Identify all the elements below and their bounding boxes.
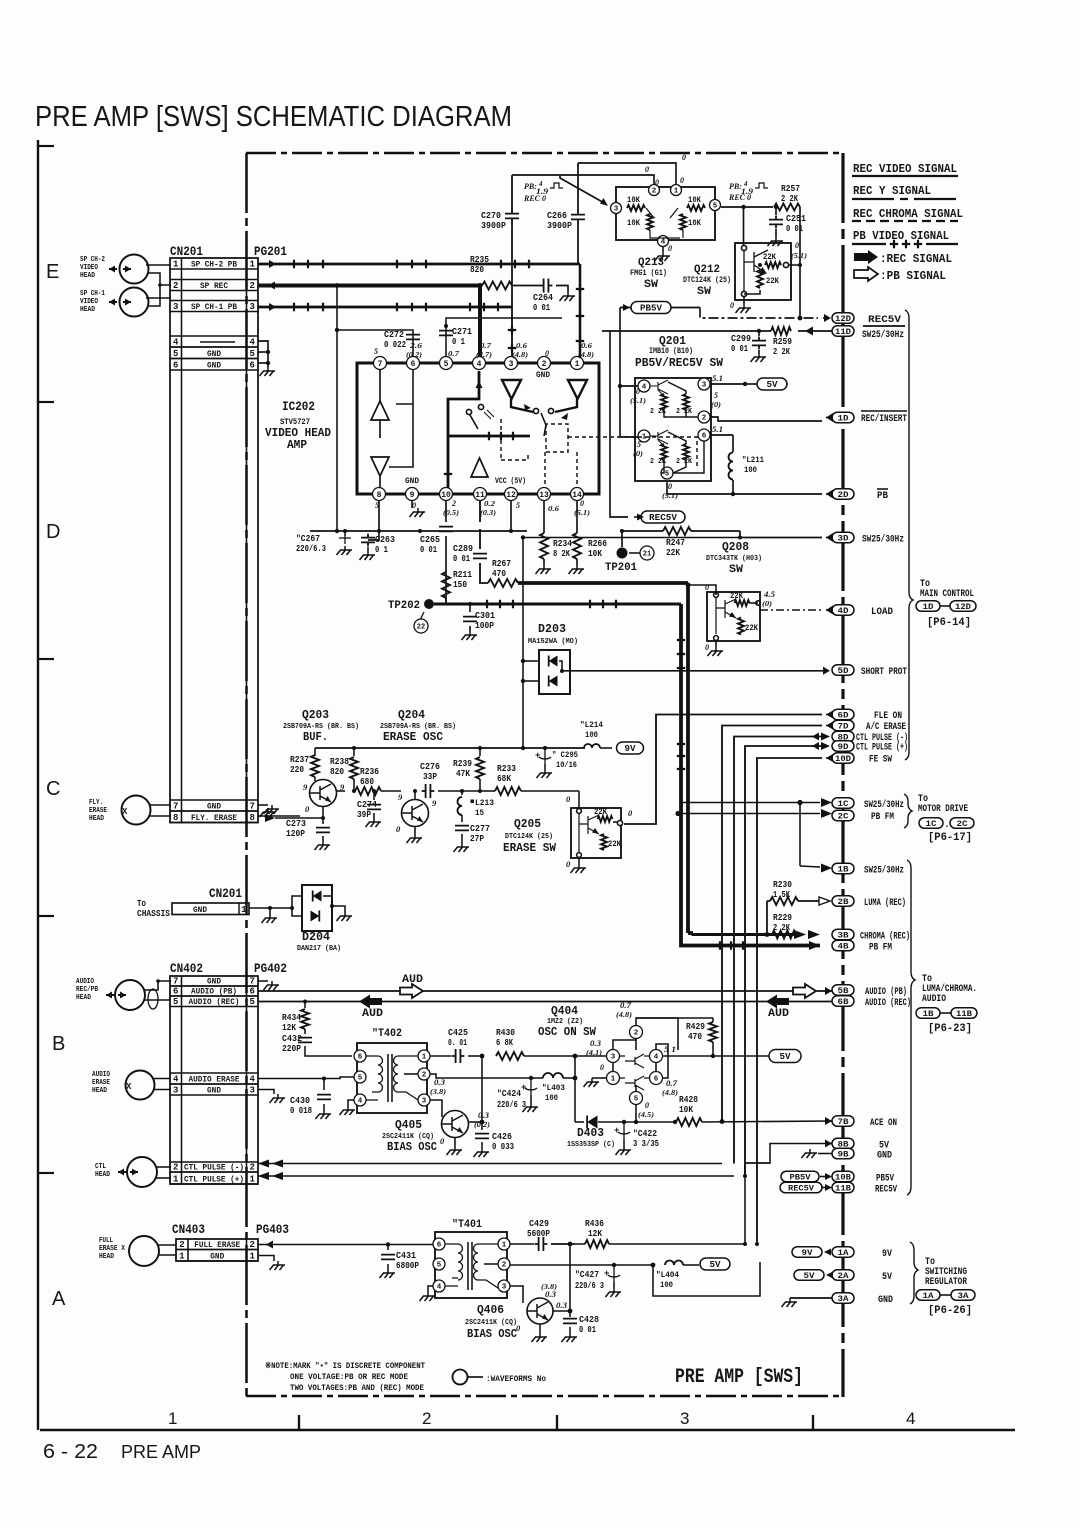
svg-text:(4.8): (4.8) — [662, 1089, 678, 1097]
svg-text:2: 2 — [422, 1409, 431, 1428]
svg-text:"C422: "C422 — [633, 1129, 657, 1139]
svg-text:1A: 1A — [923, 1291, 935, 1301]
wire Q208 collector to 4D LOAD — [749, 602, 758, 604]
Q404 pin 6 — [650, 1072, 663, 1085]
capacitor C270 — [511, 175, 513, 209]
oval 1B ref — [916, 1008, 940, 1019]
svg-text:10/16: 10/16 — [556, 760, 577, 770]
IC202 pin 1 — [571, 357, 584, 370]
svg-text:Q405: Q405 — [395, 1118, 422, 1132]
svg-text:10K: 10K — [688, 219, 701, 228]
svg-text:IMB10 (B10): IMB10 (B10) — [649, 347, 693, 356]
svg-text:1: 1 — [502, 1242, 507, 1250]
svg-text:REC5V: REC5V — [649, 513, 678, 523]
svg-text:R247: R247 — [666, 538, 685, 548]
svg-text:GND: GND — [536, 371, 550, 380]
svg-text:(0.3): (0.3) — [480, 509, 496, 517]
transformer T401 box — [435, 1232, 507, 1298]
pin oval 10D — [832, 753, 854, 764]
svg-text:TP202: TP202 — [388, 600, 420, 612]
T401 pin4 gnd — [428, 1286, 433, 1292]
svg-text:AMP: AMP — [287, 438, 307, 452]
transistor Q406 — [527, 1298, 553, 1324]
pin oval 5B — [832, 985, 854, 996]
svg-text:1D: 1D — [923, 602, 934, 612]
row 4 dash — [200, 341, 235, 343]
wire CTL PULSE(+) row — [258, 1175, 734, 1177]
svg-text:0: 0 — [636, 387, 640, 396]
svg-text:MA152WA (MO): MA152WA (MO) — [528, 638, 578, 646]
svg-text:12: 12 — [506, 491, 516, 500]
Q201 pin 2 — [698, 411, 710, 423]
wire Q204 collector up — [414, 791, 416, 800]
svg-text:ERASE: ERASE — [92, 1079, 110, 1087]
schematic border left — [245, 153, 248, 1397]
AUD open arrow right (audio pb) — [258, 990, 832, 992]
svg-text:(4.7): (4.7) — [476, 351, 492, 359]
svg-text:FULL ERASE: FULL ERASE — [194, 1240, 240, 1250]
svg-text:R239: R239 — [453, 759, 472, 769]
svg-text:3A: 3A — [958, 1291, 970, 1301]
svg-text:CTL PULSE (+): CTL PULSE (+) — [184, 1175, 244, 1185]
svg-text:[P6-14]: [P6-14] — [927, 617, 971, 629]
brace D group — [905, 310, 913, 760]
svg-text:0: 0 — [545, 349, 549, 358]
svg-text:6 - 22: 6 - 22 — [43, 1441, 98, 1463]
svg-text:11B: 11B — [956, 1009, 972, 1019]
svg-text:10K: 10K — [679, 1105, 694, 1115]
svg-text:PB VIDEO SIGNAL: PB VIDEO SIGNAL — [853, 229, 949, 243]
svg-text:4: 4 — [906, 1409, 915, 1428]
svg-text:0.7: 0.7 — [448, 349, 459, 358]
svg-text:3900P: 3900P — [481, 221, 507, 231]
svg-text:GND: GND — [210, 1252, 224, 1262]
svg-text:7: 7 — [250, 977, 255, 987]
svg-text:DTC124K (25): DTC124K (25) — [683, 276, 731, 285]
svg-text:"L214: "L214 — [580, 720, 603, 730]
svg-text:HEAD: HEAD — [76, 994, 91, 1002]
svg-text:0 018: 0 018 — [290, 1106, 312, 1116]
svg-text:2C: 2C — [838, 811, 849, 821]
svg-text:(3.8): (3.8) — [430, 1088, 446, 1096]
svg-text:VIDEO: VIDEO — [80, 298, 98, 306]
transistor Q204 — [402, 800, 429, 827]
svg-text:0.6: 0.6 — [516, 341, 527, 350]
svg-text:AUDIO (REC): AUDIO (REC) — [189, 997, 240, 1007]
Q201 pin 1 — [638, 430, 650, 442]
wire bias osc vertical x570 — [569, 1244, 571, 1311]
arrow into 3B — [794, 930, 820, 939]
svg-text:MAIN CONTROL: MAIN CONTROL — [920, 589, 974, 600]
svg-text:0.6: 0.6 — [581, 341, 592, 350]
svg-text:C270: C270 — [481, 211, 501, 221]
TP202 bus with + marks — [434, 603, 629, 606]
SP CH-2 video head — [120, 255, 149, 284]
svg-text:CTL: CTL — [95, 1163, 106, 1171]
svg-text:AUDIO (PB): AUDIO (PB) — [865, 986, 907, 998]
pin oval 11D — [832, 326, 854, 337]
Q201 pin 6 — [698, 429, 710, 441]
pin oval 2A — [832, 1270, 854, 1281]
bottom ruler line — [40, 1429, 1015, 1431]
svg-text:GND: GND — [878, 1295, 893, 1306]
diode D204 box — [302, 885, 332, 931]
svg-text:2: 2 — [173, 1163, 178, 1173]
svg-text:R428: R428 — [679, 1095, 698, 1105]
wire SP REC branch x337 — [336, 286, 338, 532]
IC202 amp triangle 2 — [371, 457, 389, 476]
svg-text:5: 5 — [637, 440, 641, 449]
svg-text:R430: R430 — [496, 1028, 515, 1038]
svg-text:C299: C299 — [731, 334, 751, 344]
svg-text:4.5: 4.5 — [763, 590, 775, 599]
svg-text:CTL PULSE (+): CTL PULSE (+) — [856, 742, 908, 754]
svg-text:LOAD: LOAD — [871, 607, 893, 618]
svg-text:0: 0 — [600, 1063, 604, 1072]
D204 wiring — [292, 896, 302, 916]
left border tick 3 — [38, 658, 54, 660]
wire FLY ERASE to Q203 — [258, 815, 300, 817]
svg-text:4: 4 — [437, 1284, 442, 1292]
svg-text:+: + — [614, 1126, 619, 1136]
capacitor C263 — [344, 531, 346, 536]
svg-text:4: 4 — [173, 338, 179, 348]
D204 diode 1 — [313, 891, 322, 902]
svg-text:R235: R235 — [470, 255, 489, 265]
svg-text:VIDEO: VIDEO — [80, 264, 98, 272]
Q212 internals — [744, 250, 768, 291]
svg-text:.: . — [944, 820, 950, 831]
svg-text:3: 3 — [680, 1409, 689, 1428]
svg-text:REC 0: REC 0 — [523, 194, 546, 203]
svg-text:C426: C426 — [492, 1132, 512, 1142]
svg-text:0.3: 0.3 — [545, 1290, 556, 1299]
wire to 12D — [671, 307, 700, 309]
IC202 pin 6 — [407, 357, 420, 370]
svg-text:2A: 2A — [838, 1271, 850, 1281]
wire T402 pin4 gnd — [348, 1100, 354, 1106]
svg-text:5V: 5V — [804, 1271, 816, 1281]
svg-text:12D: 12D — [835, 314, 851, 324]
svg-text:0: 0 — [795, 241, 799, 250]
T401 pin 2 — [498, 1258, 510, 1270]
svg-text:3: 3 — [611, 1054, 616, 1062]
svg-text:3: 3 — [502, 1284, 507, 1292]
svg-text:5V: 5V — [710, 1260, 722, 1270]
svg-text:0: 0 — [668, 244, 672, 253]
svg-text:4: 4 — [661, 239, 666, 247]
svg-text:SW: SW — [729, 564, 743, 576]
svg-text:3900P: 3900P — [547, 221, 573, 231]
svg-text:27P: 27P — [470, 834, 485, 844]
svg-text:7: 7 — [250, 802, 255, 812]
svg-text:AUDIO ERASE: AUDIO ERASE — [189, 1075, 240, 1085]
wire vertical to IC pin 1 with + marks — [579, 264, 582, 363]
svg-text:GND: GND — [877, 1151, 892, 1162]
svg-text:1: 1 — [674, 188, 679, 196]
IC202 pin 8 — [373, 488, 386, 501]
wire R230 down to 3B line — [766, 901, 768, 935]
wire 2D PB — [667, 481, 822, 494]
T402 core — [387, 1054, 389, 1102]
bus + marks vertical — [677, 636, 685, 644]
svg-text:CN201: CN201 — [209, 887, 242, 901]
Q212 pin wires — [743, 207, 745, 245]
svg-text:5: 5 — [437, 1262, 442, 1270]
IC202 amp triangle 3 — [471, 458, 488, 477]
svg-text:ERASE OSC: ERASE OSC — [383, 730, 443, 744]
svg-text:REC5V: REC5V — [868, 315, 901, 326]
IC202 amp triangle down-left — [502, 380, 521, 399]
svg-text:SP REC: SP REC — [200, 281, 228, 291]
svg-text:6: 6 — [411, 360, 416, 369]
svg-text:PG201: PG201 — [254, 245, 287, 259]
T402 pin 5 — [354, 1071, 366, 1083]
wire R436 right and up bundle join — [609, 1243, 745, 1245]
svg-text:100: 100 — [660, 1280, 673, 1290]
svg-text:6: 6 — [173, 361, 178, 371]
svg-text:B: B — [52, 1033, 65, 1055]
Q208 gnd — [715, 641, 717, 647]
svg-text:SW: SW — [644, 279, 658, 291]
wire bundle vertical 3 — [734, 737, 822, 1164]
left border tick 2 — [38, 401, 54, 403]
gnd wire to 3A — [790, 1297, 832, 1299]
svg-text:0: 0 — [580, 499, 584, 508]
svg-text:3: 3 — [509, 360, 514, 369]
svg-text:+: + — [521, 1083, 526, 1093]
svg-text:"T402: "T402 — [372, 1028, 402, 1040]
Q213 pin 4 — [658, 236, 669, 247]
svg-text:VCC (5V): VCC (5V) — [495, 477, 526, 486]
head switch contact set 1 — [466, 409, 471, 414]
svg-text:12K: 12K — [588, 1229, 603, 1239]
oval 1C ref — [919, 818, 943, 829]
oval 1A ref — [916, 1290, 940, 1301]
svg-text:REC CHROMA SIGNAL: REC CHROMA SIGNAL — [853, 207, 963, 221]
svg-text:10K: 10K — [688, 196, 701, 205]
arrow into 4B — [809, 941, 820, 950]
wire PG403 pin2 to C431 — [258, 1244, 388, 1246]
wire top to Q213 pin3 — [560, 175, 606, 204]
svg-text:PRE AMP [SWS] SCHEMATIC DIAGRA: PRE AMP [SWS] SCHEMATIC DIAGRAM — [35, 101, 512, 133]
svg-text:68K: 68K — [497, 774, 512, 784]
svg-text:FLY.: FLY. — [89, 799, 103, 807]
svg-text:22: 22 — [417, 624, 425, 632]
svg-text:C266: C266 — [547, 211, 567, 221]
svg-text:0.3: 0.3 — [478, 1111, 489, 1120]
Q404 pin 5 — [630, 1092, 643, 1105]
T402 pin 6 — [354, 1050, 366, 1062]
svg-text:6800P: 6800P — [396, 1261, 420, 1271]
gnd at IC202 pin9 — [411, 501, 413, 508]
svg-text:AUDIO: AUDIO — [922, 994, 946, 1005]
connector CN201/PG201 table — [170, 258, 258, 823]
svg-text:(4.8): (4.8) — [616, 1011, 632, 1019]
svg-text:6: 6 — [702, 433, 707, 441]
wire Q201 left side — [620, 385, 638, 387]
transistor Q212 box — [735, 243, 791, 300]
signal oval 9V to 1A — [792, 1247, 822, 1258]
T401 pin 4 — [433, 1280, 445, 1292]
svg-text:R266: R266 — [588, 539, 607, 549]
D203 wiring — [559, 661, 562, 671]
svg-text:D: D — [46, 521, 60, 543]
svg-text:SP CH-2 PB: SP CH-2 PB — [191, 260, 237, 270]
svg-text:0: 0 — [682, 153, 686, 162]
svg-text:C272: C272 — [384, 330, 404, 340]
head switch bus horizontal — [448, 435, 530, 438]
pin oval 10B — [832, 1171, 854, 1182]
svg-text:SP CH-1: SP CH-1 — [80, 290, 105, 298]
svg-text:GND: GND — [207, 349, 221, 359]
svg-text:※NOTE:MARK "▪" IS DISCRETE COM: ※NOTE:MARK "▪" IS DISCRETE COMPONENT — [265, 1361, 425, 1371]
svg-text:1A: 1A — [838, 1248, 850, 1258]
svg-text:0 01: 0 01 — [731, 344, 748, 354]
Q204 emitter gnd — [414, 826, 416, 834]
svg-text:5.1: 5.1 — [712, 425, 723, 434]
left border top tick — [38, 145, 54, 147]
svg-text:1: 1 — [575, 360, 580, 369]
wire Q213 pin2 top from C270 line — [512, 175, 654, 184]
svg-text:2: 2 — [634, 1030, 639, 1038]
svg-text:FMG1 (G1): FMG1 (G1) — [630, 269, 667, 278]
svg-text:15: 15 — [475, 808, 484, 818]
signal oval 5V audio — [769, 1050, 801, 1063]
wire T402 pin2 to L403 node — [430, 1074, 531, 1078]
svg-text::REC SIGNAL: :REC SIGNAL — [880, 252, 952, 266]
svg-text:6: 6 — [654, 1076, 659, 1084]
svg-text:1B: 1B — [923, 1009, 934, 1019]
wire L213 junction — [455, 790, 480, 792]
svg-text:2: 2 — [702, 415, 707, 423]
wire to 11D with R259 — [798, 330, 832, 332]
pin oval 9B — [832, 1148, 854, 1159]
audio head wires — [144, 981, 171, 990]
svg-text:SHORT PROT: SHORT PROT — [861, 667, 907, 678]
svg-text:BIAS OSC: BIAS OSC — [387, 1140, 437, 1154]
svg-text:2: 2 — [173, 281, 178, 291]
capacitor C264 — [540, 279, 553, 293]
svg-text:0: 0 — [645, 165, 649, 174]
audio rec/pb head circle — [115, 980, 145, 1010]
Q404 pin1 gnd — [592, 1077, 607, 1079]
IC202 pin 4 — [473, 357, 486, 370]
svg-text:R436: R436 — [585, 1219, 604, 1229]
svg-text:0.7: 0.7 — [480, 341, 491, 350]
svg-text:GND: GND — [207, 361, 221, 371]
transformer T402 box — [357, 1043, 427, 1113]
Q213 pin 2 — [649, 185, 660, 196]
svg-text:CTL PULSE (-): CTL PULSE (-) — [184, 1163, 244, 1173]
svg-text:0: 0 — [680, 176, 684, 185]
svg-text:5: 5 — [714, 391, 718, 400]
ctl head circle — [127, 1157, 157, 1187]
svg-text:5: 5 — [634, 1096, 639, 1104]
CN201 chassis row — [172, 903, 249, 915]
svg-text:2 2K: 2 2K — [773, 347, 790, 357]
svg-text:FULL: FULL — [99, 1237, 113, 1245]
transistor Q213 box — [616, 187, 715, 240]
pin oval 1B — [832, 863, 854, 874]
svg-text:1: 1 — [173, 260, 179, 270]
svg-text:220/6 3: 220/6 3 — [575, 1281, 604, 1291]
svg-text:1: 1 — [250, 1252, 256, 1262]
svg-text:(5.1): (5.1) — [630, 397, 646, 405]
svg-text:C301: C301 — [475, 611, 496, 621]
svg-text:1: 1 — [250, 1175, 256, 1185]
svg-text:1: 1 — [422, 1054, 427, 1062]
IC202 pin 5 — [440, 357, 453, 370]
transistor Q205 box — [571, 808, 621, 858]
wire 1B SW25/30Hz — [800, 866, 820, 867]
oval 2C ref — [950, 818, 974, 829]
svg-text:(0.2): (0.2) — [406, 351, 422, 359]
svg-text:PB FM: PB FM — [871, 812, 894, 823]
svg-text:SP CH-2: SP CH-2 — [80, 256, 105, 264]
svg-text:2: 2 — [451, 499, 456, 508]
svg-text:5: 5 — [250, 349, 255, 359]
svg-text:0 01: 0 01 — [420, 545, 437, 555]
svg-text:HEAD: HEAD — [92, 1087, 107, 1095]
svg-text:22K: 22K — [608, 840, 621, 849]
connector CN402/PG402 table — [170, 976, 258, 1184]
Q406 wires — [510, 1286, 523, 1303]
svg-text:C277: C277 — [470, 824, 490, 834]
svg-text:+: + — [604, 1269, 609, 1279]
svg-text:ONE VOLTAGE:PB OR REC MODE: ONE VOLTAGE:PB OR REC MODE — [290, 1372, 408, 1382]
svg-text:3: 3 — [422, 1098, 427, 1106]
svg-text:A: A — [52, 1288, 66, 1310]
svg-text:2 2K: 2 2K — [676, 408, 692, 416]
wire bus SP CH-2 PB (REC + marks) — [258, 263, 580, 266]
wire bundle vertical 5 — [757, 758, 822, 1242]
svg-text:PG402: PG402 — [254, 962, 287, 976]
svg-text:120P: 120P — [286, 829, 306, 839]
svg-text:0. 01: 0. 01 — [448, 1038, 467, 1048]
pin oval 12D — [832, 313, 854, 324]
pin oval 2D — [832, 489, 854, 500]
erase osc top rail — [315, 747, 585, 749]
Q201 pin 4 — [638, 380, 650, 392]
wire Q404 pin4 to 5V — [662, 1055, 770, 1057]
svg-text:IC202: IC202 — [282, 400, 315, 414]
IC202 amp triangle 1 — [371, 401, 389, 420]
gnd at CN403 pin1 — [258, 1256, 274, 1262]
heavy bus to 3B CHROMA — [688, 931, 693, 935]
op-amp IC202 box — [357, 363, 599, 494]
svg-text:22K: 22K — [594, 808, 607, 817]
svg-text:6: 6 — [250, 987, 255, 997]
svg-text:[P6-17]: [P6-17] — [928, 832, 972, 844]
wire 5V loop under L404 — [653, 1262, 760, 1296]
svg-text:0.2: 0.2 — [484, 499, 495, 508]
wire bus SP REC (heavy) — [258, 284, 480, 288]
svg-text:C: C — [46, 778, 60, 800]
svg-text:2: 2 — [250, 1240, 255, 1250]
wire Q213 pin1 top from C266 line — [578, 163, 676, 184]
svg-text:5: 5 — [516, 501, 520, 510]
svg-text:R229: R229 — [773, 913, 792, 923]
svg-text:3D: 3D — [838, 533, 849, 543]
svg-text:C429: C429 — [529, 1219, 549, 1229]
signal oval 9V — [617, 742, 644, 754]
5V oval at Q201 pin3 — [710, 383, 745, 385]
pin oval 5D — [832, 665, 854, 676]
svg-text:13: 13 — [539, 491, 549, 500]
IC202 pin 9 — [406, 488, 419, 501]
capacitor C251 — [774, 205, 778, 209]
